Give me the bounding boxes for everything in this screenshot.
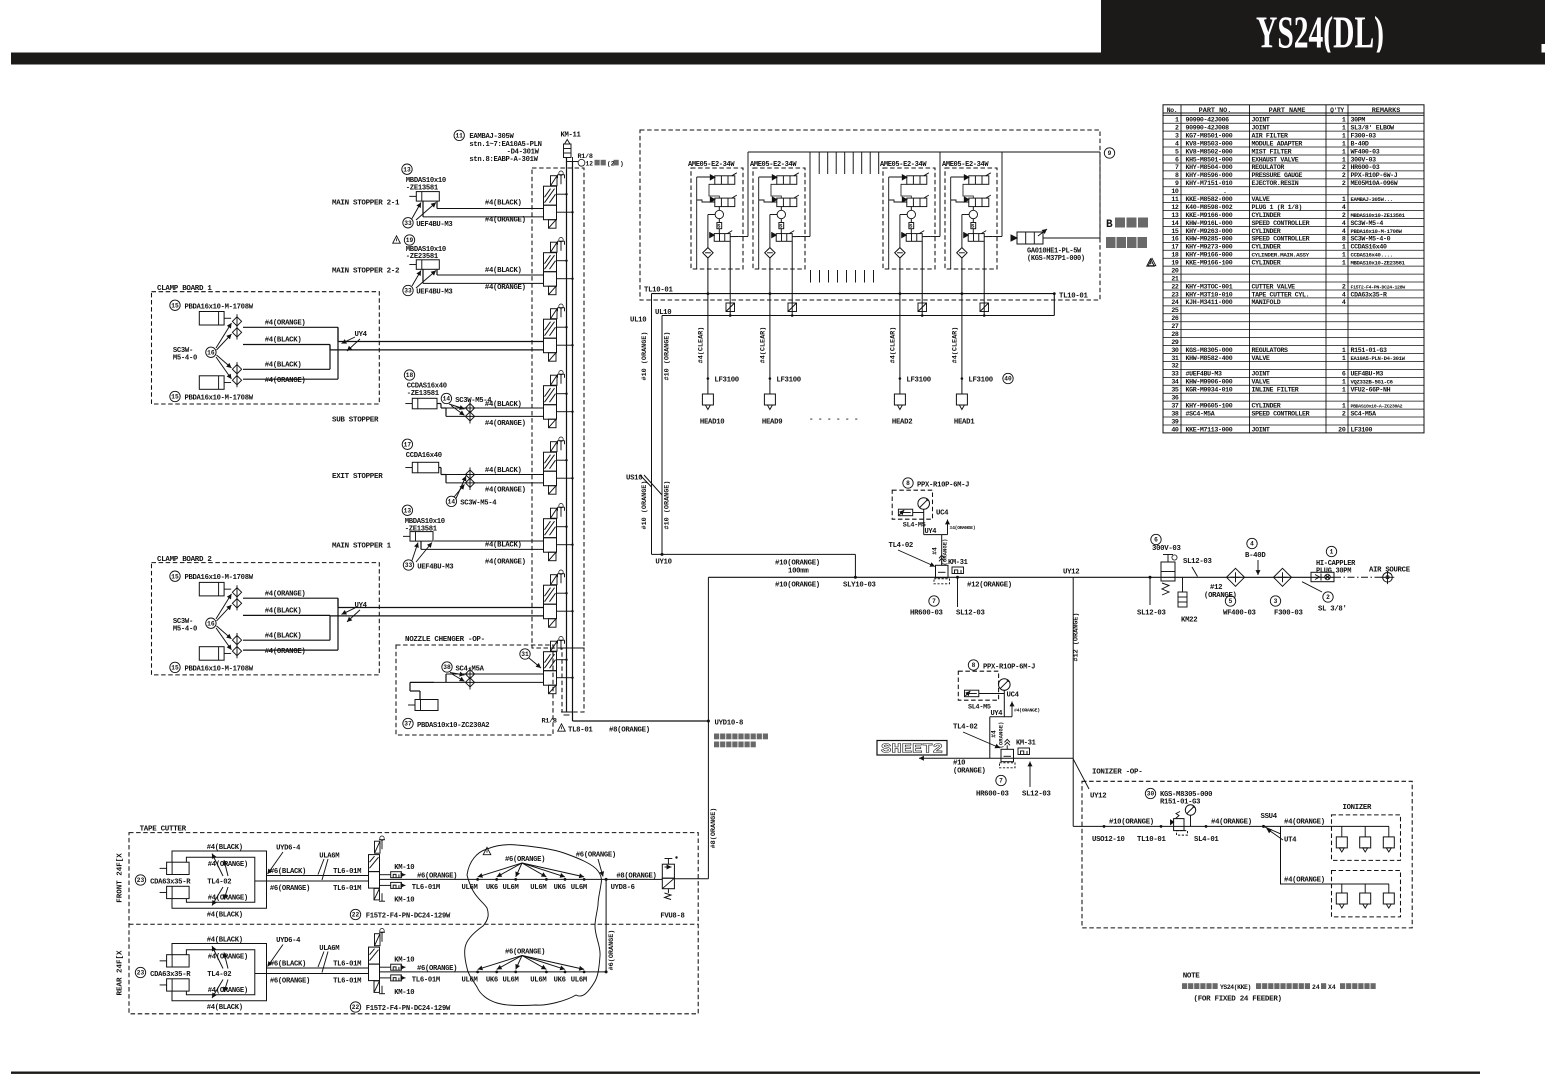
svg-text:5: 5	[1175, 148, 1179, 155]
svg-text:33: 33	[405, 562, 413, 569]
cylinder 19 MAIN STOPPER 2-2 (MBDAS10x10-ZE23581)	[404, 235, 414, 245]
svg-text:17: 17	[1171, 244, 1179, 251]
TL4-02 pointer arrows	[212, 854, 223, 877]
svg-text:4: 4	[1175, 140, 1179, 147]
svg-text:(ORANGE): (ORANGE)	[998, 722, 1005, 749]
wire gauge to node UY4 lower	[1003, 690, 1005, 717]
svg-text:CDA63x35-R: CDA63x35-R	[1351, 291, 1387, 298]
svg-text:EAMBAJ-305W: EAMBAJ-305W	[469, 133, 514, 141]
joint 33 UEF4BU-M3 pointers	[403, 560, 413, 570]
svg-text:1: 1	[1342, 402, 1346, 409]
svg-text:#8(ORANGE): #8(ORANGE)	[609, 727, 650, 735]
joint KM-10 A	[380, 874, 391, 876]
svg-text:TL6-01M: TL6-01M	[333, 978, 361, 986]
speed controllers 16 upper pair	[232, 588, 241, 597]
svg-text:PBDA16x10-M-1708W: PBDA16x10-M-1708W	[185, 665, 254, 673]
svg-text:CCDAS16x40....: CCDAS16x40....	[1351, 252, 1393, 259]
svg-text:VQZ332B-5G1-C6: VQZ332B-5G1-C6	[1351, 379, 1394, 386]
supply line A (P rail)	[566, 158, 568, 713]
svg-text:KV8-M8503-000: KV8-M8503-000	[1186, 140, 1233, 147]
joint KM-10 B	[380, 884, 391, 886]
svg-text:UL6M: UL6M	[462, 884, 478, 892]
svg-text:UYD8-6: UYD8-6	[611, 884, 635, 892]
svg-text:CCDA16x40: CCDA16x40	[406, 452, 442, 460]
svg-text:UK6: UK6	[554, 884, 566, 892]
svg-text:2: 2	[1342, 172, 1346, 179]
svg-text:14: 14	[448, 499, 456, 506]
joint KM22	[1182, 577, 1184, 592]
svg-text:#4(BLACK): #4(BLACK)	[265, 632, 302, 640]
svg-text:KKE-M9166-000: KKE-M9166-000	[1186, 212, 1233, 219]
svg-text:SC3W-M5-4-0: SC3W-M5-4-0	[1351, 236, 1391, 243]
wire main air line #12	[708, 576, 1334, 578]
bus UL10	[662, 315, 1054, 317]
svg-text:VALVE: VALVE	[1252, 379, 1270, 386]
svg-text:#6(ORANGE): #6(ORANGE)	[608, 930, 616, 971]
svg-text:VALVE: VALVE	[1252, 196, 1270, 203]
svg-text:B-40D: B-40D	[1351, 140, 1369, 147]
pressure gauge 8 assembly lower	[968, 660, 978, 670]
svg-text:#6(ORANGE): #6(ORANGE)	[417, 965, 457, 973]
svg-text:1: 1	[1342, 252, 1346, 259]
svg-text:PBDA16x10-M-1708W: PBDA16x10-M-1708W	[1351, 228, 1403, 235]
svg-text:1: 1	[1330, 549, 1334, 556]
nozzle 3 ionizer 1	[1388, 826, 1390, 837]
svg-text:KHW-M9906-000: KHW-M9906-000	[1186, 379, 1233, 386]
svg-text:#4(BLACK): #4(BLACK)	[485, 401, 522, 409]
svg-text:CYLINDER: CYLINDER	[1252, 244, 1281, 251]
svg-text:#10(ORANGE): #10(ORANGE)	[1109, 818, 1154, 826]
svg-text:8: 8	[1175, 172, 1179, 179]
svg-text:#6(ORANGE): #6(ORANGE)	[417, 872, 457, 880]
svg-text:TL6-01M: TL6-01M	[412, 884, 440, 892]
svg-text:KM-31: KM-31	[1016, 740, 1036, 748]
filter S box	[779, 223, 784, 229]
svg-text:15: 15	[171, 573, 179, 580]
wire valve C to UL10 bus	[983, 241, 985, 315]
wire bends to cylinder 13	[436, 201, 438, 209]
pilot valve C	[968, 234, 984, 242]
svg-text:MODULE ADAPTER: MODULE ADAPTER	[1252, 140, 1303, 147]
svg-text:#4(BLACK): #4(BLACK)	[485, 267, 522, 275]
joint SL12-03 pointer upper	[957, 577, 959, 607]
filter S box	[909, 223, 914, 229]
svg-text:REMARKS: REMARKS	[1372, 107, 1401, 115]
svg-text:UYD10-8: UYD10-8	[715, 720, 744, 728]
valve 34 GA010HE1-PL-5W	[1017, 232, 1043, 244]
wire gauge to node UY4	[923, 509, 925, 534]
wire outputs to valve station 7	[338, 607, 544, 609]
svg-text:1: 1	[1342, 125, 1346, 132]
svg-text:#4(ORANGE): #4(ORANGE)	[208, 861, 248, 869]
check valve diamond	[957, 248, 967, 258]
svg-text:UEF4BU-M3: UEF4BU-M3	[416, 221, 452, 229]
svg-text:KHY-M9166-000: KHY-M9166-000	[1186, 252, 1233, 259]
svg-text:7: 7	[1175, 164, 1179, 171]
wire UY4 down to regulator TL4-02	[941, 535, 943, 566]
svg-text:MAIN STOPPER 2-2: MAIN STOPPER 2-2	[332, 267, 400, 275]
cylinder 13 MAIN STOPPER 2-1 (MBDAS10x10-ZE13581)	[402, 164, 412, 174]
wires cylinder 17 to controllers	[439, 467, 441, 469]
svg-text:1: 1	[1175, 117, 1179, 124]
svg-text:IONIZER: IONIZER	[1343, 804, 1372, 812]
svg-text:INLINE FILTER: INLINE FILTER	[1252, 387, 1299, 394]
svg-text:KHW-M8582-400: KHW-M8582-400	[1186, 355, 1233, 362]
wires cylinder 37 to controllers	[419, 691, 421, 700]
svg-text:29: 29	[1171, 339, 1179, 346]
wire check valve to TL10-01 bus / head drop	[899, 258, 901, 294]
svg-text:JOINT: JOINT	[1252, 371, 1270, 378]
svg-text:SPEED CONTROLLER: SPEED CONTROLLER	[1252, 236, 1310, 243]
svg-text:33: 33	[1171, 371, 1179, 378]
svg-text:#4(ORANGE): #4(ORANGE)	[485, 559, 526, 567]
wire check valve to TL10-01 bus / head drop	[961, 258, 963, 294]
svg-text:6: 6	[1342, 371, 1346, 378]
svg-text:MAIN STOPPER 2-1: MAIN STOPPER 2-1	[332, 199, 400, 207]
bottom rule line	[11, 1072, 1480, 1074]
node UYD8-6	[606, 878, 648, 880]
svg-text:SLY10-03: SLY10-03	[843, 581, 877, 589]
svg-text:1: 1	[1342, 140, 1346, 147]
svg-text:TL4-02: TL4-02	[207, 971, 231, 979]
svg-text:KM-10: KM-10	[394, 957, 414, 965]
wire ionizer feed line	[1073, 825, 1389, 827]
svg-text:#UEF4BU-M3: #UEF4BU-M3	[1186, 371, 1222, 378]
svg-text:4: 4	[1342, 228, 1346, 235]
svg-text:100mm: 100mm	[788, 568, 809, 576]
svg-text:UL6M: UL6M	[503, 977, 519, 985]
nozzle 3 ionizer 2	[1388, 884, 1390, 893]
svg-text:1: 1	[1342, 156, 1346, 163]
speed controller 14 pair	[441, 393, 451, 403]
svg-text:26: 26	[1171, 315, 1179, 322]
svg-text:13: 13	[403, 166, 411, 173]
svg-text:SL12-03: SL12-03	[1022, 791, 1051, 799]
wire UY4 down to regulator lower	[989, 717, 991, 759]
valve 11 EAMBAJ-305W label block	[454, 130, 464, 140]
svg-text:#4(BLACK): #4(BLACK)	[207, 936, 243, 944]
svg-text:M5-4-0: M5-4-0	[173, 355, 197, 363]
svg-text:40: 40	[1171, 426, 1179, 433]
svg-text:23: 23	[1171, 291, 1179, 298]
pilot rail riser	[809, 152, 811, 237]
joint SL12-03 pointer lower	[1029, 762, 1031, 788]
svg-text:#12 (ORANGE): #12 (ORANGE)	[1073, 613, 1081, 662]
svg-text:#4(BLACK): #4(BLACK)	[265, 337, 302, 345]
svg-text:SL 3/8': SL 3/8'	[1318, 606, 1347, 614]
svg-text:UL6M: UL6M	[530, 977, 546, 985]
cutter valve body	[375, 934, 381, 946]
svg-text:21: 21	[1171, 275, 1179, 282]
svg-text:#4(ORANGE): #4(ORANGE)	[485, 486, 526, 494]
svg-text:1: 1	[1342, 379, 1346, 386]
svg-text:US10: US10	[626, 475, 642, 483]
svg-text:38: 38	[443, 664, 451, 671]
svg-text:31: 31	[1171, 355, 1179, 362]
joint symbol on drop	[918, 303, 927, 312]
wire R1/8 bottom run to node UYD10-8	[573, 720, 709, 722]
cylinder 18 SUB STOPPER (CCDAS16x40-ZE13581)	[404, 370, 414, 380]
svg-text:19: 19	[1171, 260, 1179, 267]
head nozzle HEAD10	[702, 394, 713, 405]
svg-text:B: B	[1106, 219, 1113, 231]
svg-text:UY4: UY4	[355, 331, 368, 339]
svg-text:2: 2	[1175, 125, 1179, 132]
pilot rail	[748, 151, 1100, 153]
supply line B (R rail)	[572, 162, 574, 722]
svg-text:UY4: UY4	[355, 602, 368, 610]
svg-text:F15T2-F4-PN-DC24-129W: F15T2-F4-PN-DC24-129W	[366, 912, 451, 920]
svg-text:KHY-M3TOC-001: KHY-M3TOC-001	[1186, 283, 1233, 290]
svg-text:-ZE13581: -ZE13581	[407, 390, 440, 398]
svg-text:4: 4	[1250, 541, 1254, 548]
svg-text:TL4-02: TL4-02	[207, 878, 231, 886]
gauge on regulator 30	[1185, 805, 1195, 815]
svg-text:MANIFOLD: MANIFOLD	[1252, 299, 1281, 306]
svg-text:#4(CLEAR): #4(CLEAR)	[889, 327, 897, 364]
svg-text:KHW-M916L-000: KHW-M916L-000	[1186, 220, 1233, 227]
wire outputs to valve station 3	[338, 341, 544, 343]
wire pair from valve station 1	[437, 208, 544, 210]
node UYD10-8 drop line	[707, 577, 709, 878]
internal piping	[888, 177, 890, 269]
warning triangle at table row 19	[1148, 258, 1156, 265]
svg-text:NOTE: NOTE	[1183, 973, 1201, 981]
module adapter 4 B-40D	[1247, 538, 1257, 548]
svg-text:1: 1	[1342, 260, 1346, 267]
svg-text:YS24(DL): YS24(DL)	[1256, 8, 1384, 58]
svg-text:UY4: UY4	[925, 528, 937, 536]
svg-text:KHY-M3T10-010: KHY-M3T10-010	[1186, 291, 1233, 298]
svg-text:JOINT: JOINT	[1252, 117, 1270, 124]
svg-text:F15T2-F4-PN-DC24-128W: F15T2-F4-PN-DC24-128W	[1351, 284, 1406, 290]
svg-text:KHY-M9263-000: KHY-M9263-000	[1186, 228, 1233, 235]
pilot rail to valve 34	[1099, 152, 1101, 238]
svg-text:3: 3	[1274, 598, 1278, 605]
svg-text:SL12-03: SL12-03	[1183, 558, 1212, 566]
valve station 1 (EAMBAJ 5-port)	[544, 171, 574, 228]
svg-text:LF3100: LF3100	[776, 377, 800, 385]
svg-text:20: 20	[1171, 267, 1179, 274]
svg-text:(FOR FIXED 24 FEEDER): (FOR FIXED 24 FEEDER)	[1194, 995, 1282, 1003]
svg-text:UL6M: UL6M	[571, 884, 587, 892]
pilot valve A	[777, 176, 797, 185]
wire inner loop (orange)	[186, 950, 254, 995]
svg-text:9: 9	[1175, 180, 1179, 187]
svg-text:REGULATOR: REGULATOR	[1252, 164, 1285, 171]
wire check valve to TL10-01 bus / head drop	[769, 258, 771, 294]
vacuum ejector circle	[969, 210, 977, 218]
svg-text:#4(BLACK): #4(BLACK)	[207, 844, 243, 852]
check valve diamond	[765, 248, 775, 258]
svg-text:UY12: UY12	[1090, 793, 1106, 801]
joint 40 LF3100 on HEAD1 line	[961, 377, 964, 380]
svg-text:SC4-M5A: SC4-M5A	[1351, 410, 1377, 417]
cutter note kanji	[714, 734, 719, 740]
valve station 3 (EAMBAJ 5-port)	[544, 304, 574, 361]
node UY12 riser	[1072, 577, 1074, 826]
valve manifold dashed enclosure	[532, 168, 584, 648]
head drop lines	[707, 294, 709, 394]
svg-text:22: 22	[352, 1004, 360, 1011]
balloon 31 pointer to valve station 8	[520, 649, 530, 659]
svg-text:#4(ORANGE): #4(ORANGE)	[265, 377, 306, 385]
wire bends to cylinder 19	[436, 269, 438, 275]
svg-text:SSU4: SSU4	[1261, 813, 1278, 821]
svg-text:SC3W-M5-4: SC3W-M5-4	[1351, 220, 1384, 227]
vacuum ejector circle	[907, 210, 915, 218]
svg-text:15: 15	[171, 665, 179, 672]
svg-text:PBDA16x10-M-1708W: PBDA16x10-M-1708W	[185, 395, 254, 403]
exhaust valve 6 300V-03	[1151, 534, 1161, 544]
svg-text:TL8-01: TL8-01	[568, 727, 593, 735]
svg-text:): )	[620, 161, 624, 168]
svg-text:#4(ORANGE): #4(ORANGE)	[1284, 818, 1325, 826]
joint 40 LF3100 on HEAD2 line	[899, 377, 902, 380]
svg-text:3: 3	[1175, 132, 1179, 139]
warning triangle right	[1147, 259, 1155, 266]
svg-text:UYD6-4: UYD6-4	[276, 844, 301, 852]
svg-text:16: 16	[1171, 236, 1179, 243]
balloon 23 CDA63x35-R	[135, 967, 145, 977]
svg-text:1: 1	[1342, 196, 1346, 203]
svg-text:4: 4	[1342, 220, 1346, 227]
parts table frame	[1163, 105, 1424, 433]
svg-text:FVU8-8: FVU8-8	[660, 913, 684, 921]
tape cutter cylinder 23 upper	[167, 955, 190, 967]
wire main out	[380, 971, 607, 973]
svg-text:4: 4	[1342, 291, 1346, 298]
svg-text:WF400-03: WF400-03	[1351, 148, 1380, 155]
valve station 2 (EAMBAJ 5-port)	[544, 238, 574, 295]
svg-text:#12(ORANGE): #12(ORANGE)	[967, 582, 1012, 590]
svg-text:PPX-R10P-6M-J: PPX-R10P-6M-J	[917, 481, 969, 489]
svg-text:KJH-M3411-000: KJH-M3411-000	[1186, 299, 1233, 306]
wire outer loop (black)	[172, 851, 267, 908]
svg-text:36: 36	[1171, 395, 1179, 402]
svg-text:33: 33	[404, 220, 412, 227]
valve station 8 (EAMBAJ 5-port)	[544, 637, 574, 694]
tape cutter cylinder 23 lower	[167, 979, 190, 991]
svg-text:UK6: UK6	[486, 977, 498, 985]
internal piping	[696, 177, 698, 269]
TL4-02 pointer arrows	[212, 946, 223, 969]
svg-text:300V-03: 300V-03	[1351, 156, 1377, 163]
tape cutter cylinder 23 lower	[167, 886, 190, 898]
valve station 4 (EAMBAJ 5-port)	[544, 371, 574, 428]
svg-text:TL10-01: TL10-01	[1137, 836, 1166, 844]
svg-text:90990-42J006: 90990-42J006	[1186, 117, 1230, 124]
svg-text:#4(ORANGE): #4(ORANGE)	[950, 525, 976, 531]
svg-text:4: 4	[1342, 299, 1346, 306]
svg-text:K40-M8598-002: K40-M8598-002	[1186, 204, 1233, 211]
svg-text:KGS-M8305-000: KGS-M8305-000	[1186, 347, 1233, 354]
svg-text:HEAD1: HEAD1	[954, 419, 975, 427]
svg-text:.: .	[1223, 188, 1227, 195]
svg-text:YS24(KKE): YS24(KKE)	[1220, 984, 1251, 991]
svg-text:UEF4BU-M3: UEF4BU-M3	[417, 563, 453, 571]
svg-text:UT4: UT4	[1284, 837, 1297, 845]
svg-text:KH5-M8501-000: KH5-M8501-000	[1186, 156, 1233, 163]
wire outer loop (black)	[172, 944, 267, 1001]
KM-11 fitting symbol	[564, 144, 572, 158]
wire pair from valve station 4	[446, 407, 544, 409]
wire valve C to UL10 bus	[729, 241, 731, 315]
svg-text:23: 23	[137, 970, 145, 977]
joint 33 UEF4BU-M3 pointers	[403, 218, 413, 228]
svg-text:TL6-01M: TL6-01M	[333, 960, 361, 968]
wire SHEET2 branch line	[919, 757, 1073, 759]
svg-text:#4(ORANGE): #4(ORANGE)	[485, 420, 526, 428]
svg-text:2: 2	[1342, 283, 1346, 290]
svg-text:CYLINDER: CYLINDER	[1252, 402, 1281, 409]
svg-text:#12: #12	[1210, 584, 1222, 592]
svg-text:CUTTER VALVE: CUTTER VALVE	[1252, 283, 1296, 290]
svg-text:PPX-R1OP-6M-J: PPX-R1OP-6M-J	[983, 663, 1035, 671]
pilot rail riser	[939, 152, 941, 237]
bus TL10-01	[652, 293, 1055, 295]
svg-text:PBDAS10x10-A-ZC230A2: PBDAS10x10-A-ZC230A2	[1351, 403, 1403, 409]
svg-text:#10: #10	[953, 760, 965, 768]
svg-text:F300-03: F300-03	[1274, 610, 1303, 618]
svg-text:Q'TY: Q'TY	[1330, 107, 1344, 114]
regulator 30 R151-01-G3	[1145, 788, 1155, 798]
svg-text:#10 (ORANGE): #10 (ORANGE)	[641, 481, 649, 530]
joint 2 SL 3/8	[1323, 592, 1333, 602]
svg-text:KHY-M8596-000: KHY-M8596-000	[1186, 172, 1233, 179]
svg-text:KG7-M8501-000: KG7-M8501-000	[1186, 132, 1233, 139]
riser lines to UY10 node	[651, 294, 653, 555]
wires manifold to valve	[267, 875, 369, 877]
cylinder 13 MAIN STOPPER 1 (MBDAS10x10-ZE13581)	[402, 505, 412, 515]
cylinder 15 upper (PBDA16x10-M-1708W)	[170, 300, 180, 310]
svg-text:SC3W-M5-4: SC3W-M5-4	[460, 500, 497, 508]
joint KM-10 A	[380, 966, 391, 968]
valve station 8 dashed enclosure	[562, 648, 584, 712]
wire rear to front riser	[605, 879, 607, 972]
svg-text:7: 7	[999, 778, 1003, 785]
cylinder 37 (PBDAS10x10-ZC230A2)	[415, 700, 438, 711]
svg-text:UEF4BU-M3: UEF4BU-M3	[416, 289, 452, 297]
vacuum ejector circle	[715, 210, 723, 218]
pilot rail riser	[747, 152, 749, 237]
svg-text:KM-31: KM-31	[948, 559, 968, 567]
balloon 23 CDA63x35-R	[135, 875, 145, 885]
joint KM-31 upper	[952, 567, 964, 574]
cutter valve body	[375, 841, 381, 853]
svg-text:12: 12	[1171, 204, 1179, 211]
svg-text:UL6M: UL6M	[530, 884, 546, 892]
speed controllers 16 upper pair	[232, 317, 241, 326]
svg-text:SHEET2: SHEET2	[881, 742, 943, 758]
svg-text:31: 31	[521, 651, 529, 658]
speed controller 38 SC4-M5A pair	[442, 662, 452, 672]
svg-text:#4(CLEAR): #4(CLEAR)	[759, 327, 767, 364]
joint 40 LF3100 on HEAD9 line	[769, 377, 772, 380]
svg-text:30PM: 30PM	[1351, 117, 1366, 124]
svg-text:KKE-M8582-000: KKE-M8582-000	[1186, 196, 1233, 203]
svg-text:KM-10: KM-10	[394, 989, 414, 997]
joint KM-10 B	[380, 977, 391, 979]
svg-text:CYLINDER: CYLINDER	[1252, 260, 1281, 267]
svg-text:#6(ORANGE): #6(ORANGE)	[270, 978, 310, 986]
cylinder 15 lower (PBDA16x10-M-1708W)	[199, 376, 224, 390]
svg-text:2: 2	[1342, 180, 1346, 187]
svg-text:JOINT: JOINT	[1252, 426, 1270, 433]
svg-text:USO12-10: USO12-10	[1092, 836, 1125, 844]
svg-text:PRESSURE GAUGE: PRESSURE GAUGE	[1252, 172, 1303, 179]
wires manifold to valve	[267, 967, 369, 969]
